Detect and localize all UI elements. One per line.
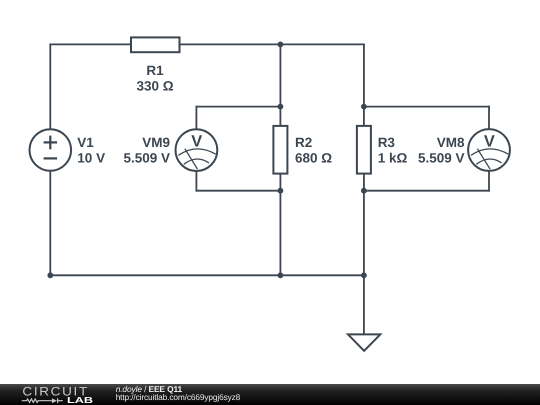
resistor R1 <box>131 37 180 52</box>
svg-text:5.509 V: 5.509 V <box>123 151 170 166</box>
junction dot VM8 top <box>361 104 367 110</box>
junction dot VM8 bottom <box>361 188 367 194</box>
wire ground stem <box>363 275 365 334</box>
junction dot VM9 bottom <box>278 188 284 194</box>
CircuitLab logo <box>0 384 540 405</box>
wire R3 branch upper vertical <box>363 44 365 126</box>
wire VM9 upper vertical <box>195 107 197 130</box>
wire left vertical upper (V1 top) <box>49 44 51 129</box>
resistor R3 <box>357 126 371 174</box>
svg-text:5.509 V: 5.509 V <box>418 151 465 166</box>
wire top-right horizontal (R1 to top-right corner) <box>180 43 364 45</box>
svg-text:VM9: VM9 <box>142 135 170 150</box>
resistor R2 <box>273 126 287 174</box>
svg-text:R1: R1 <box>146 63 164 78</box>
svg-text:330 Ω: 330 Ω <box>136 78 173 93</box>
wire R2 branch upper vertical <box>279 44 281 126</box>
svg-text:V: V <box>484 132 495 150</box>
svg-text:LAB: LAB <box>67 395 93 405</box>
voltmeter VM8 <box>468 129 510 171</box>
voltage source V1 <box>30 129 72 171</box>
wire VM8 bottom horizontal <box>364 190 489 192</box>
ground <box>348 334 380 350</box>
junction dot VM9 top <box>278 104 284 110</box>
svg-text:10 V: 10 V <box>77 151 105 166</box>
svg-text:R3: R3 <box>378 135 396 150</box>
wire VM8 upper vertical <box>488 107 490 130</box>
junction dot bottom R2 <box>278 272 284 278</box>
wire VM9 lower vertical <box>195 171 197 191</box>
wire bottom horizontal <box>50 274 364 276</box>
wire R2 branch lower vertical <box>279 174 281 276</box>
wire VM8 lower vertical <box>488 171 490 191</box>
svg-text:VM8: VM8 <box>437 135 465 150</box>
wire VM8 top horizontal <box>364 106 489 108</box>
svg-text:680 Ω: 680 Ω <box>295 151 332 166</box>
wire top-left horizontal (V1 to R1) <box>50 43 131 45</box>
junction dot top R2 <box>278 42 284 48</box>
wire left vertical lower (V1 bottom) <box>49 171 51 275</box>
junction dot bottom R3/ground <box>361 272 367 278</box>
svg-text:http://circuitlab.com/c669ypgj: http://circuitlab.com/c669ypgj6syz8 <box>116 392 241 402</box>
svg-text:V1: V1 <box>77 135 94 150</box>
wire VM9 bottom horizontal <box>196 190 280 192</box>
svg-text:1 kΩ: 1 kΩ <box>378 151 408 166</box>
wire VM9 top horizontal <box>196 106 280 108</box>
svg-text:V: V <box>191 132 202 150</box>
svg-text:R2: R2 <box>295 135 312 150</box>
wire R3 branch lower vertical <box>363 174 365 276</box>
junction dot bottom-left <box>47 272 53 278</box>
voltmeter VM9 <box>176 129 218 171</box>
